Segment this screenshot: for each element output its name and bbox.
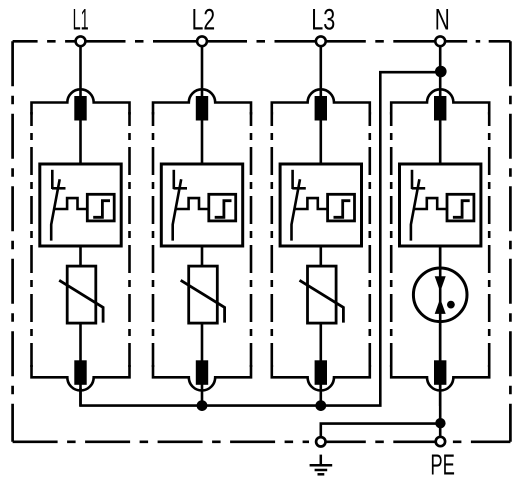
svg-text:L1: L1: [73, 3, 89, 36]
svg-text:N: N: [435, 3, 450, 36]
svg-text:L2: L2: [192, 3, 216, 36]
svg-text:PE: PE: [430, 449, 455, 480]
svg-text:L3: L3: [311, 3, 335, 36]
